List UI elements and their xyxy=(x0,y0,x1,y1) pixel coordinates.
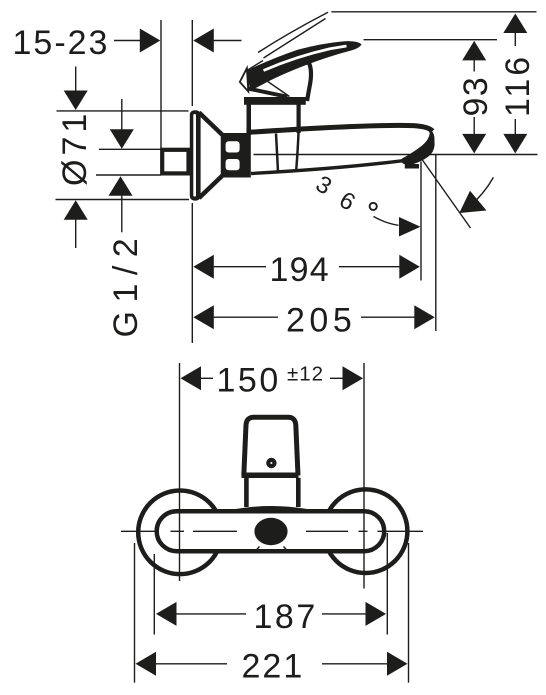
handle base inner diagonal xyxy=(253,71,290,97)
spout top edge xyxy=(247,125,433,132)
aerator chamfer mark right xyxy=(284,547,289,553)
pill top hump under neck xyxy=(233,508,310,512)
lever ghost line long xyxy=(258,12,328,52)
escutcheon flange bar xyxy=(190,110,201,200)
dim 187 arrow right xyxy=(366,602,387,626)
handle base beak xyxy=(240,68,249,91)
angle arc arrow xyxy=(459,191,486,213)
dim 205 arrow right xyxy=(414,305,435,329)
neck right edge xyxy=(307,61,311,101)
body joint bar xyxy=(244,97,306,105)
dim G1/2 extension line top xyxy=(99,148,161,150)
neck right edge xyxy=(296,478,301,507)
dim 93 arrow bottom (down) xyxy=(473,117,475,135)
handle dot xyxy=(266,458,276,468)
handle bottom bar xyxy=(242,473,299,479)
angle arc leader xyxy=(470,177,494,206)
union nut block xyxy=(221,133,251,178)
spout tip wedge xyxy=(401,128,434,169)
handle front xyxy=(244,417,298,475)
spout seam right xyxy=(296,133,298,170)
dim 150 extension line left xyxy=(179,363,181,581)
dim 205 arrow left xyxy=(193,305,214,329)
svg-text:150: 150 xyxy=(217,362,281,400)
spout angle diagonal xyxy=(421,158,471,228)
dim 187 line right xyxy=(322,613,367,615)
dim Ø71 extension line top xyxy=(57,110,189,112)
aerator dome xyxy=(254,518,287,545)
svg-text:187: 187 xyxy=(254,598,318,636)
dim 221 extension line right xyxy=(408,543,410,683)
body pill xyxy=(157,511,385,551)
lever slit xyxy=(264,46,347,71)
dim 221 extension line left xyxy=(134,543,136,683)
handle base top-left diagonal xyxy=(249,61,264,70)
lever ghost line short xyxy=(264,19,326,59)
connector rectangle G1/2 nipple xyxy=(162,150,188,174)
dim 15-23 leader line left xyxy=(114,40,142,42)
svg-text:±12: ±12 xyxy=(287,363,324,386)
dim 150 arrow right xyxy=(343,366,364,390)
dim 150 line right xyxy=(330,377,345,379)
neck left edge xyxy=(244,478,249,507)
dim 187 extension line right xyxy=(386,533,388,635)
svg-text:Ø71: Ø71 xyxy=(56,110,94,186)
extension line spout end (x=421) xyxy=(420,162,422,281)
dim 116 arrow top (up) xyxy=(503,14,527,34)
wall extension line (x=192.3) lower segment xyxy=(191,203,193,343)
svg-text:194: 194 xyxy=(270,251,330,289)
dim 36 leader arrow xyxy=(399,217,421,237)
dim Ø71 extension line bottom xyxy=(56,199,190,201)
dim 150 extension line right xyxy=(363,363,365,589)
spout axis line xyxy=(254,154,436,156)
dim 93 arrow top (up) xyxy=(462,41,486,61)
dim 116 arrow bottom (down) xyxy=(514,119,516,135)
dim G1/2 arrow top (down) xyxy=(121,99,123,131)
body column right edge xyxy=(297,101,301,133)
dim 221 arrow right xyxy=(387,652,408,676)
dim 221 line right xyxy=(322,663,389,665)
escutcheon cone bottom edge xyxy=(199,175,223,198)
body column left edge xyxy=(247,101,252,135)
front view center line dashes xyxy=(121,530,159,532)
extension line spout tip (x=435.8) xyxy=(435,155,437,331)
extension line outlet (y=154.4) xyxy=(435,154,537,156)
spout seam left xyxy=(276,134,278,172)
extension line handle top (y=39.7) xyxy=(364,39,498,41)
svg-text:G1/2: G1/2 xyxy=(107,230,145,338)
dim 36 leader arc xyxy=(374,217,399,226)
svg-text:116: 116 xyxy=(499,54,537,117)
aerator chamfer mark left xyxy=(255,547,260,553)
spout bottom edge xyxy=(251,161,402,174)
handle base left edge xyxy=(247,69,250,89)
lever body xyxy=(248,41,362,91)
dim Ø71 arrow bottom (up) xyxy=(64,200,88,220)
svg-text:205: 205 xyxy=(286,302,356,340)
handle base bottom slant xyxy=(248,89,288,97)
svg-text:93: 93 xyxy=(457,76,495,117)
dim 194 arrow right xyxy=(399,255,420,279)
dim 15-23 arrow right-pointing xyxy=(140,29,161,53)
dim 15-23 extension line left (x=161) xyxy=(160,20,162,149)
svg-text:221: 221 xyxy=(242,648,305,686)
dim 205 line right xyxy=(361,316,416,318)
dim 15-23 extension line right (x=192.3) upper segment xyxy=(191,20,193,106)
left escutcheon circle xyxy=(138,491,222,575)
right escutcheon circle xyxy=(324,489,408,573)
dim 187 arrow left xyxy=(156,602,177,626)
dim 194 arrow left xyxy=(193,255,214,279)
escutcheon cone right face xyxy=(221,134,226,177)
dim 15-23 arrow left-pointing xyxy=(193,29,214,53)
dim G1/2 arrow bottom (up) xyxy=(109,176,133,196)
dim 194 line right xyxy=(339,266,401,268)
escutcheon cone top edge xyxy=(199,113,223,136)
dim 187 extension line left xyxy=(153,554,155,635)
svg-text:15-23: 15-23 xyxy=(13,24,110,62)
extension line top (y=11.8) xyxy=(331,11,536,13)
dim G1/2 extension line bottom xyxy=(96,174,161,176)
dim 15-23 leader line right xyxy=(212,40,242,42)
dim Ø71 arrow top (down) xyxy=(75,67,77,93)
dim 150 arrow left xyxy=(181,366,202,390)
dim 221 arrow left xyxy=(136,652,157,676)
